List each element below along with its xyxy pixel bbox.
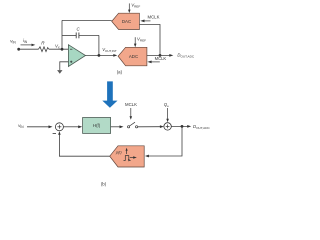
ADC block — [118, 47, 147, 66]
wire top feedback from DAC to V_x — [62, 19, 112, 21]
wire output with junction — [171, 125, 191, 128]
summing node 2 — [164, 123, 171, 130]
wire cap down to output node — [98, 35, 100, 55]
op-amp U1 — [68, 45, 85, 67]
svg-text:DAC: DAC — [122, 19, 131, 24]
svg-text:(a): (a) — [117, 69, 123, 74]
svg-text:MCLK: MCLK — [148, 15, 160, 20]
wire op-amp output — [86, 54, 118, 57]
wire ADC output with arrowhead — [147, 54, 173, 57]
MCLK into ADC — [147, 56, 166, 64]
V_REF into ADC — [134, 36, 146, 47]
wire non-inverting input to ground — [60, 62, 69, 70]
loop filter H(f) — [83, 118, 111, 134]
sampling switch — [128, 122, 138, 128]
quantization noise Q_e — [164, 102, 169, 122]
summing node 1 — [53, 123, 64, 134]
capacitor C — [62, 26, 99, 38]
wire resistor to op-amp — [49, 48, 69, 50]
DAC block bottom — [110, 146, 145, 167]
MCLK into DAC — [140, 15, 159, 23]
big blue arrow — [102, 81, 117, 107]
ground — [57, 70, 62, 74]
node V_x — [55, 44, 63, 51]
current label i_IN — [21, 38, 36, 46]
V_REF into DAC — [128, 3, 140, 13]
MCLK label and arrow onto switch — [125, 102, 137, 120]
feedback wire DAC to summer 1 — [58, 131, 110, 156]
svg-text:(b): (b) — [101, 182, 107, 187]
svg-text:H(f): H(f) — [93, 123, 101, 128]
wire switch to summer 2 — [138, 125, 164, 128]
svg-text:MCLK: MCLK — [155, 56, 167, 61]
svg-text:p(t): p(t) — [115, 150, 122, 154]
wire summer to H(f) — [63, 125, 82, 128]
node v_in input terminal — [10, 38, 20, 50]
wire H(f) to switch — [111, 125, 124, 128]
wire v_IN to summer — [27, 125, 53, 128]
svg-text:ADC: ADC — [129, 54, 138, 59]
wire vertical from V_x up to feedback — [61, 20, 63, 49]
feedback wire down and left to DAC — [145, 126, 182, 157]
feedback wire from output up to DAC — [139, 25, 161, 57]
resistor R — [39, 41, 49, 52]
wire input — [19, 48, 39, 50]
svg-text:MCLK: MCLK — [125, 102, 137, 107]
DAC block — [112, 13, 140, 29]
